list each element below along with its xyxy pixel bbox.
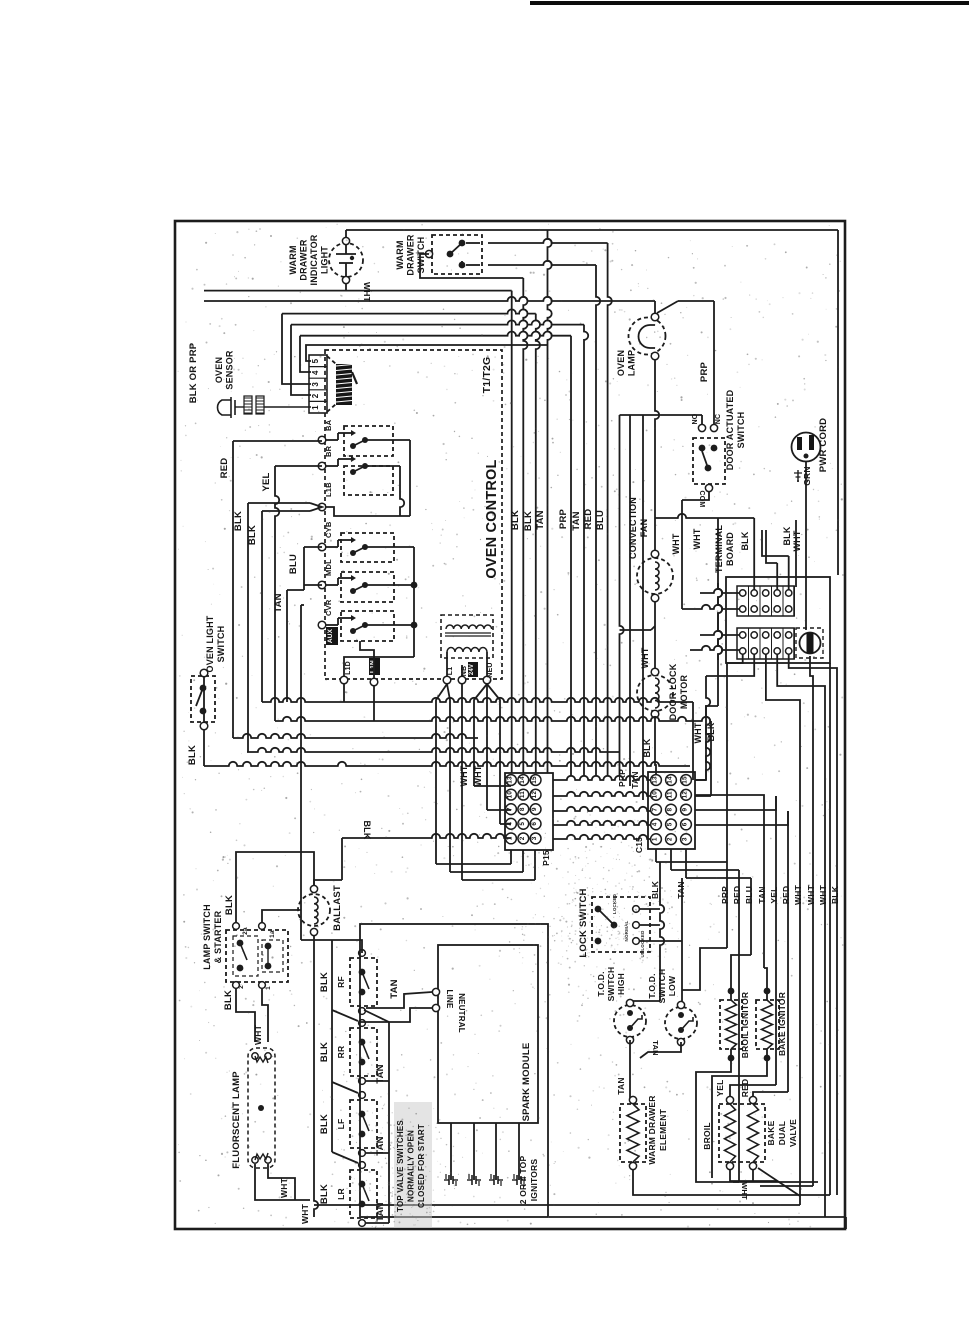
svg-text:LINE: LINE [445,989,454,1008]
svg-text:WHT: WHT [253,1024,263,1045]
svg-text:9: 9 [682,807,689,811]
svg-text:LOW: LOW [667,975,677,996]
svg-text:BLK: BLK [523,511,534,531]
svg-text:DUAL: DUAL [777,1121,787,1145]
svg-text:DOOR LOCK: DOOR LOCK [668,663,678,720]
svg-text:WHT: WHT [792,530,802,551]
svg-text:LR: LR [336,1188,346,1200]
svg-text:WHT: WHT [692,528,702,549]
svg-text:3: 3 [311,382,320,387]
svg-text:LAMP SWITCH: LAMP SWITCH [202,904,212,970]
svg-text:9: 9 [531,807,538,811]
svg-text:BLK: BLK [233,511,244,531]
svg-text:WHT: WHT [806,884,816,905]
svg-text:AUX: AUX [327,628,334,643]
svg-text:SPARK MODULE: SPARK MODULE [521,1043,532,1122]
svg-text:T1/T2G: T1/T2G [481,357,493,394]
svg-text:WHT: WHT [362,282,372,303]
svg-text:13: 13 [652,776,659,784]
svg-text:WHT: WHT [473,765,483,786]
svg-text:BLK: BLK [319,1042,330,1062]
svg-text:COM: COM [698,491,705,508]
svg-text:3: 3 [682,837,689,841]
svg-text:YEL: YEL [769,886,779,903]
svg-text:TAN: TAN [375,1202,386,1221]
svg-text:14: 14 [667,776,674,784]
svg-text:BLK: BLK [830,885,840,904]
svg-text:WHT: WHT [693,722,703,743]
svg-text:NEUTRAL: NEUTRAL [457,993,466,1033]
svg-text:SWITCH: SWITCH [736,412,746,449]
svg-text:RED: RED [781,886,791,905]
svg-text:WHT: WHT [793,884,803,905]
svg-text:YEL: YEL [261,472,272,491]
svg-text:BROIL IGNITOR: BROIL IGNITOR [740,992,750,1059]
svg-text:WHT: WHT [818,884,828,905]
svg-text:YEL: YEL [715,1079,725,1096]
svg-text:PRP: PRP [720,886,730,904]
svg-text:LF: LF [336,1119,346,1130]
svg-text:TAN: TAN [757,886,767,903]
svg-text:WHT: WHT [279,1177,289,1198]
svg-text:BLK: BLK [223,990,234,1010]
svg-text:8: 8 [519,807,526,811]
svg-text:SWITCH: SWITCH [416,237,426,274]
svg-text:BAKE: BAKE [766,1120,776,1145]
svg-text:WHT: WHT [459,765,469,786]
svg-text:DOOR ACTUATED: DOOR ACTUATED [725,389,735,470]
svg-text:BLK: BLK [782,526,792,545]
svg-text:FAN: FAN [639,519,649,538]
svg-text:WHT: WHT [671,533,681,554]
svg-text:2: 2 [519,836,526,840]
svg-text:15: 15 [682,776,689,784]
svg-text:6: 6 [531,822,538,826]
svg-text:C15: C15 [634,837,644,853]
svg-text:OVEN: OVEN [616,350,626,376]
svg-text:TAN: TAN [389,979,400,998]
svg-text:1: 1 [652,837,659,841]
svg-text:BLK: BLK [510,510,521,530]
svg-text:CVR: CVR [324,599,333,616]
svg-text:DRAWER: DRAWER [406,234,416,275]
svg-text:12: 12 [531,791,538,799]
svg-text:5: 5 [519,822,526,826]
svg-text:T.O.D.: T.O.D. [596,971,606,996]
svg-text:11: 11 [667,791,674,798]
svg-text:NB: NB [461,666,468,677]
svg-text:DRAWER: DRAWER [299,239,309,280]
svg-text:LIGHT: LIGHT [320,246,330,274]
svg-text:L1D: L1D [345,661,352,675]
svg-text:2 OR 4 TOP: 2 OR 4 TOP [518,1156,528,1205]
svg-text:WARM DRAWER: WARM DRAWER [647,1095,657,1164]
svg-text:OVEN: OVEN [214,357,224,383]
svg-text:BLK: BLK [362,820,372,839]
svg-text:RED: RED [219,458,230,479]
svg-text:SENSOR: SENSOR [225,350,235,390]
svg-text:BLK: BLK [187,745,198,765]
svg-text:L1B: L1B [324,482,333,497]
svg-text:BLK: BLK [319,1114,330,1134]
svg-text:SWITCH: SWITCH [216,626,226,663]
svg-text:13: 13 [507,776,514,784]
svg-text:NC: NC [715,414,722,425]
svg-text:TAN: TAN [676,881,686,898]
svg-text:BA: BA [324,419,333,431]
svg-text:OVEN CONTROL: OVEN CONTROL [484,459,500,578]
svg-text:FLUORSCENT LAMP: FLUORSCENT LAMP [231,1071,242,1169]
svg-text:3: 3 [531,836,538,840]
svg-text:WARM: WARM [395,240,405,269]
svg-text:24V: 24V [469,664,475,675]
svg-text:TAN: TAN [273,593,284,612]
svg-text:UNLOCKED: UNLOCKED [640,930,645,958]
svg-text:CYB: CYB [324,521,333,538]
svg-text:BLK: BLK [319,972,330,992]
svg-text:BAKE IGNITOR: BAKE IGNITOR [777,992,787,1056]
svg-text:BLK: BLK [319,1184,330,1204]
svg-text:NO: NO [692,413,699,424]
svg-text:CLOSED FOR START: CLOSED FOR START [417,1124,426,1208]
svg-text:2a: 2a [242,927,249,935]
svg-text:ELEMENT: ELEMENT [658,1108,668,1151]
svg-text:TAN: TAN [375,1136,386,1155]
svg-text:IGNITORS: IGNITORS [529,1159,539,1202]
svg-text:CONVECTION: CONVECTION [628,497,638,559]
svg-text:L1: L1 [447,667,454,676]
svg-text:OVEN LIGHT: OVEN LIGHT [205,615,215,672]
svg-text:MDL: MDL [324,559,333,576]
svg-text:P15: P15 [541,850,551,866]
svg-text:TERMINAL: TERMINAL [714,525,724,573]
svg-text:L1N: L1N [370,660,377,673]
svg-text:MOTOR: MOTOR [679,675,689,710]
svg-text:TAN: TAN [375,1064,386,1083]
svg-text:2: 2 [311,393,320,398]
svg-text:5: 5 [311,358,320,363]
svg-text:BLK: BLK [740,531,750,550]
svg-text:TAN: TAN [616,1077,626,1094]
svg-text:INDICATOR: INDICATOR [309,234,319,285]
svg-text:HIGH: HIGH [616,973,626,995]
svg-text:BOARD: BOARD [725,532,735,566]
svg-text:NEU: NEU [487,662,494,677]
svg-text:PRP: PRP [558,508,569,529]
svg-text:4: 4 [311,370,320,375]
svg-text:PRP: PRP [699,361,710,382]
svg-text:BLU: BLU [744,886,754,904]
svg-text:RF: RF [336,976,346,988]
svg-text:BLK OR PRP: BLK OR PRP [188,342,199,403]
svg-text:VALVE: VALVE [788,1119,798,1147]
svg-text:7: 7 [652,807,659,811]
svg-text:LAMP: LAMP [627,350,637,376]
svg-text:2: 2 [238,985,245,989]
svg-text:8: 8 [667,807,674,811]
svg-text:TOP VALVE SWITCHES: TOP VALVE SWITCHES [396,1120,405,1212]
svg-text:15: 15 [531,776,538,784]
svg-text:WHT: WHT [300,1203,310,1224]
svg-text:10: 10 [652,791,659,799]
svg-text:6: 6 [682,822,689,826]
svg-text:TAN: TAN [571,511,582,530]
svg-text:TAN: TAN [535,510,546,529]
svg-text:BALLAST: BALLAST [332,885,343,931]
svg-text:WHT: WHT [640,647,650,668]
svg-text:LOCK SWITCH: LOCK SWITCH [578,888,589,957]
svg-text:11: 11 [519,791,526,798]
svg-text:1: 1 [311,405,320,410]
svg-text:RR: RR [336,1046,346,1059]
svg-text:TAN: TAN [651,1040,660,1055]
svg-text:BLU: BLU [288,554,299,574]
svg-text:PWR CORD: PWR CORD [818,418,829,472]
svg-text:BLK: BLK [247,525,258,545]
svg-text:RED: RED [732,886,742,905]
svg-text:GRN: GRN [802,466,812,486]
svg-text:BLK: BLK [224,895,235,915]
svg-text:14: 14 [519,776,526,784]
svg-text:4: 4 [652,822,659,826]
svg-text:SWITCH: SWITCH [657,969,667,1004]
svg-text:NORMAL: NORMAL [624,920,629,941]
svg-text:1: 1 [265,986,272,990]
svg-text:WARM: WARM [288,245,298,274]
svg-text:& STARTER: & STARTER [213,910,223,963]
svg-text:BR: BR [324,445,333,457]
svg-text:WHT: WHT [740,1182,749,1200]
svg-text:BROIL: BROIL [702,1122,712,1149]
svg-text:5: 5 [667,822,674,826]
svg-text:12: 12 [682,791,689,799]
svg-text:BLK: BLK [642,738,652,757]
svg-text:10: 10 [507,791,514,799]
